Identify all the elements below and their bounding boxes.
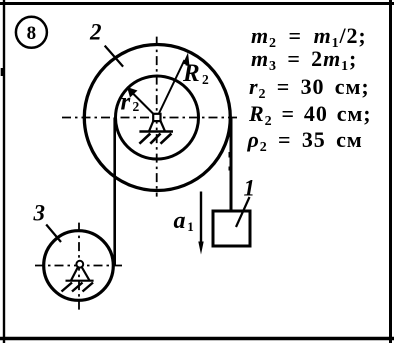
svg-text:2: 2	[89, 20, 102, 45]
svg-text:2: 2	[202, 72, 209, 87]
svg-text:1: 1	[187, 219, 194, 234]
svg-text:a: a	[174, 208, 186, 234]
svg-text:R: R	[182, 60, 200, 87]
svg-text:r2 = 30 см;: r2 = 30 см;	[249, 74, 370, 102]
svg-text:1: 1	[244, 176, 256, 201]
svg-text:r: r	[121, 88, 131, 115]
svg-text:3: 3	[33, 201, 46, 226]
svg-text:2: 2	[133, 99, 140, 114]
svg-text:8: 8	[27, 23, 37, 44]
